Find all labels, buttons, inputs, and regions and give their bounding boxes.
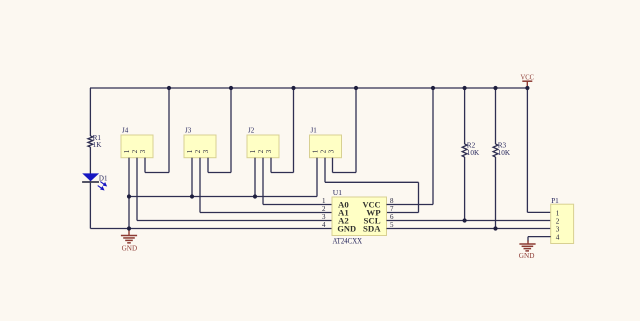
svg-text:4: 4: [322, 221, 326, 229]
svg-text:1: 1: [249, 149, 257, 153]
resistor R1: [88, 134, 102, 149]
wire J2 pin1 to jumper-gnd line: [254, 158, 256, 197]
svg-text:3: 3: [322, 213, 326, 221]
LED D1: [82, 173, 108, 189]
svg-text:1: 1: [123, 149, 131, 153]
U1 pin numbers right: [390, 197, 394, 229]
wire bottom GND rail: [90, 228, 332, 230]
svg-text:3: 3: [556, 226, 560, 234]
power VCC symbol: [521, 72, 535, 88]
U1 pin numbers left: [322, 197, 326, 229]
node jumper-gnd J2.1: [253, 194, 257, 198]
node bus junction J3.3: [229, 86, 233, 90]
svg-text:1K: 1K: [93, 141, 103, 149]
svg-text:P1: P1: [551, 197, 559, 205]
svg-text:D1: D1: [99, 175, 108, 183]
svg-text:3: 3: [202, 149, 210, 153]
wire P1 pin4 to ground: [528, 236, 551, 238]
wire J2 pin3 to bus: [270, 158, 272, 173]
node bus junction R3: [493, 86, 497, 90]
wire J4 pin3 to bus: [144, 158, 146, 173]
svg-text:J2: J2: [248, 127, 255, 135]
svg-text:1: 1: [186, 149, 194, 153]
node SDA/R3: [493, 226, 497, 230]
svg-text:J1: J1: [311, 127, 318, 135]
wire J2 pin2 to U1 A0: [262, 158, 264, 205]
wire U1 pin6 SCL to P1 pin2: [387, 220, 551, 222]
wire VCC branch down to P1 pin1: [526, 88, 528, 212]
svg-text:1: 1: [556, 209, 560, 217]
connector J2: [247, 127, 279, 158]
svg-text:SDA: SDA: [363, 224, 381, 234]
svg-text:R3: R3: [498, 141, 507, 149]
wire U1 pin5 SDA to P1 pin3: [387, 228, 551, 230]
wire top VCC bus: [90, 87, 527, 89]
svg-text:7: 7: [390, 205, 394, 213]
svg-text:VCC: VCC: [521, 72, 535, 81]
svg-text:2: 2: [131, 149, 139, 153]
resistor R2: [462, 88, 480, 221]
node bus junction U1 VCC: [431, 86, 435, 90]
wire jumper ground line: [129, 196, 317, 198]
wire J1 pin1 down to jumper ground line: [316, 158, 318, 197]
wire J4 pin1 to GND rail: [128, 158, 130, 229]
svg-text:AT24CXX: AT24CXX: [333, 235, 363, 245]
svg-text:J4: J4: [122, 127, 129, 135]
connector J4: [121, 127, 153, 158]
node jumper-gnd J3.1: [190, 194, 194, 198]
svg-text:3: 3: [328, 149, 336, 153]
wire left vertical (R1/D1 branch): [89, 88, 91, 136]
svg-text:10K: 10K: [467, 149, 480, 157]
connector J3: [184, 127, 216, 158]
svg-text:4: 4: [556, 234, 560, 242]
op-amp U1 AT24CXX box: [332, 188, 387, 245]
svg-text:3: 3: [139, 149, 147, 153]
svg-text:2: 2: [320, 149, 328, 153]
wire J4 pin2 to U1 A2: [136, 158, 138, 221]
svg-text:10K: 10K: [498, 149, 511, 157]
svg-text:J3: J3: [185, 127, 192, 135]
svg-text:2: 2: [257, 149, 265, 153]
node bus junction VCC/P1: [525, 86, 529, 90]
node bus junction J2.3: [291, 86, 295, 90]
resistor R3: [493, 88, 511, 229]
wire J3 pin3 to bus: [207, 158, 209, 173]
ground GND right (P1): [519, 241, 536, 261]
svg-text:R2: R2: [467, 141, 476, 149]
ground GND left: [121, 229, 138, 253]
node bus junction J4.3: [167, 86, 171, 90]
svg-text:1: 1: [322, 197, 326, 205]
svg-text:GND: GND: [122, 244, 138, 253]
node bus junction J1.3: [354, 86, 358, 90]
connector P1: [551, 197, 574, 243]
svg-text:3: 3: [265, 149, 273, 153]
svg-text:2: 2: [322, 205, 326, 213]
svg-text:2: 2: [194, 149, 202, 153]
svg-text:2: 2: [556, 218, 560, 226]
svg-text:GND: GND: [337, 225, 356, 234]
svg-text:U1: U1: [333, 188, 342, 197]
wire J1 pin3 to bus: [332, 158, 334, 173]
wire J1 pin2 to U1 WP: [324, 158, 326, 183]
wire U1 pin8 VCC to bus: [387, 204, 434, 206]
wire J3 pin2 to U1 A1: [199, 158, 201, 213]
ground stem: [128, 229, 130, 236]
node rail GND: [127, 226, 131, 230]
wire J3 pin1 to jumper-gnd line: [191, 158, 193, 197]
connector J1: [310, 127, 342, 158]
node SCL/R2: [463, 218, 467, 222]
svg-text:GND: GND: [519, 251, 535, 260]
svg-text:1: 1: [312, 149, 320, 153]
node jumper-gnd J4.1: [127, 194, 131, 198]
node bus junction R2: [463, 86, 467, 90]
